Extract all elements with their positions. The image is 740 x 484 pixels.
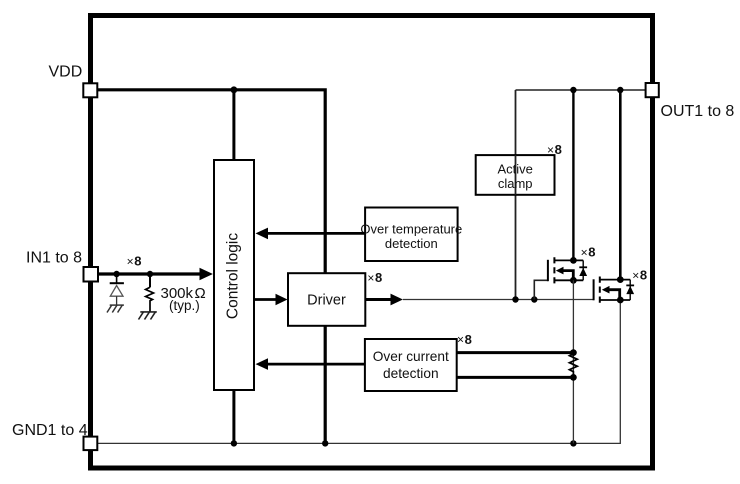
svg-text:Driver: Driver [307, 293, 346, 309]
node GND-driver junction [322, 440, 328, 446]
svg-text:8: 8 [465, 332, 472, 347]
Q2 body diode [629, 280, 631, 300]
wire Q2 drain riser [619, 90, 622, 280]
node Q2 drain [617, 276, 624, 283]
svg-text:detection: detection [383, 366, 439, 381]
Q1 body diode [582, 260, 584, 280]
Q1 source arrow [561, 271, 574, 281]
wire gate net thin line [403, 299, 594, 301]
svg-text:×: × [581, 245, 588, 259]
wire driver output arrow [365, 298, 392, 301]
svg-text:8: 8 [134, 254, 141, 269]
svg-text:×: × [367, 271, 374, 285]
svg-text:×: × [457, 333, 464, 347]
wire Q1 drain riser [572, 90, 574, 260]
node IN-resistor junction [147, 271, 153, 277]
wire Q1 gate lead [534, 280, 548, 299]
wire VDD rail horizontal [97, 90, 325, 273]
svg-text:8: 8 [375, 270, 382, 285]
node sense bottom [570, 374, 577, 381]
svg-text:8: 8 [640, 268, 647, 283]
wire over-current sense top [457, 351, 574, 354]
ground (diode) [107, 305, 124, 312]
Q1 source lead [554, 279, 583, 281]
wire driver bottom lead to GND rail [324, 326, 327, 444]
wire control logic to driver arrow [254, 298, 276, 301]
Q1 channel bar dashed [553, 257, 555, 284]
Q1 drain lead [554, 259, 583, 261]
wire Q1 source to sense resistor [572, 280, 574, 443]
wire OUT rail horizontal [516, 89, 646, 91]
node VDD-control junction [231, 86, 238, 93]
Q1 gate bar [547, 260, 549, 281]
svg-text:IN1 to 8: IN1 to 8 [26, 250, 82, 267]
svg-text:VDD: VDD [49, 64, 83, 81]
svg-text:8: 8 [588, 245, 595, 260]
pin OUT1 to 8 [646, 83, 659, 97]
node OUT-Q1 junction [570, 87, 576, 93]
svg-text:×: × [632, 269, 639, 283]
node gate net - active clamp junction [512, 296, 518, 302]
node gate net - Q1 gate junction [531, 296, 537, 302]
Q2 source lead [600, 299, 630, 301]
svg-text:clamp: clamp [498, 176, 533, 191]
node Q1 drain [570, 257, 577, 264]
Q2 source arrow [607, 290, 620, 300]
wire control logic top lead [232, 90, 235, 160]
Q2 channel bar dashed [599, 277, 601, 304]
wire over-current sense bottom [457, 376, 574, 379]
driver box U2 [288, 273, 365, 326]
diode D1 input clamp [116, 274, 118, 283]
transistor Q1 (high-side DMOS) [534, 257, 587, 300]
wire active clamp vertical line OUT to gate net [515, 90, 517, 300]
node OUT-Q2 junction [617, 87, 623, 93]
node sense top [570, 349, 577, 356]
over current detection box U4 [365, 339, 457, 391]
wire GND rail horizontal with riser to Q2 source [97, 300, 620, 443]
transistor Q2 (low-side DMOS) [594, 276, 635, 303]
svg-text:OUT1 to 8: OUT1 to 8 [661, 103, 735, 120]
control logic box U1 [214, 160, 254, 390]
node IN-diode junction [113, 271, 119, 277]
node GND-control junction [231, 440, 237, 446]
pin IN1 to 8 [84, 267, 99, 282]
svg-text:Active: Active [497, 161, 532, 176]
svg-text:×: × [547, 143, 554, 157]
wire control logic bottom lead [232, 390, 235, 443]
node GND-sense junction [570, 440, 576, 446]
svg-text:8: 8 [555, 142, 562, 157]
active clamp box U5 [476, 155, 555, 195]
IC outline box [91, 16, 653, 469]
wire over-current arrow to control logic [267, 363, 365, 366]
node Q2 source [617, 297, 624, 304]
pin VDD [83, 83, 97, 97]
resistor R2 sense [569, 354, 577, 377]
wire IN input with arrow into control logic [97, 272, 200, 275]
svg-text:detection: detection [385, 236, 438, 251]
Q2 gate bar [593, 279, 595, 300]
svg-text:Control logic: Control logic [225, 233, 242, 319]
ground (resistor) [139, 312, 157, 320]
svg-text:(typ.): (typ.) [169, 298, 200, 313]
svg-text:Over current: Over current [373, 349, 449, 364]
svg-text:×: × [127, 254, 134, 268]
over temperature detection box U3 [365, 208, 458, 262]
node Q1 source [570, 277, 577, 284]
Q2 drain lead [600, 279, 630, 281]
svg-text:GND1 to 4: GND1 to 4 [12, 422, 88, 439]
wire over-temperature arrow to control logic [267, 232, 365, 235]
pin GND1 to 4 [84, 437, 98, 451]
svg-text:Over temperature: Over temperature [360, 221, 462, 236]
resistor R1 300k pulldown [149, 274, 151, 287]
